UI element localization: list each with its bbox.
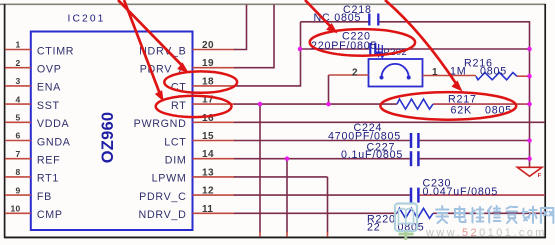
pin 5 VDDA wire	[5, 113, 70, 131]
svg-text:7: 7	[15, 149, 20, 159]
pin 7 REF wire	[5, 149, 60, 167]
annotation ellipse around R217	[380, 92, 516, 120]
pin 15 LCT wire	[164, 131, 529, 148]
watermark char 3	[470, 207, 483, 223]
svg-text:12: 12	[202, 186, 214, 197]
pin 9 FB wire	[5, 185, 52, 203]
pin 6 GNDA wire	[5, 131, 71, 149]
node junction bus LCT	[527, 138, 532, 143]
pin 4 SST wire	[5, 94, 60, 112]
pin 11 NDRV_D wire	[139, 204, 545, 221]
frame top line	[0, 3, 546, 5]
svg-text:VDDA: VDDA	[37, 118, 70, 130]
wire C220 net	[301, 48, 530, 50]
svg-text:CMP: CMP	[37, 209, 63, 221]
svg-text:18: 18	[202, 76, 214, 87]
frame right line	[544, 4, 546, 238]
svg-text:1: 1	[15, 40, 20, 50]
watermark char 5	[507, 207, 517, 224]
svg-text:OVP: OVP	[37, 64, 62, 76]
svg-text:0.047uF/0805: 0.047uF/0805	[423, 186, 499, 198]
capacitor C218	[314, 4, 379, 26]
svg-text:IC201: IC201	[68, 13, 106, 24]
svg-text:16: 16	[202, 113, 214, 124]
svg-text:PDRV_C: PDRV_C	[139, 191, 186, 203]
svg-text:5: 5	[15, 113, 20, 123]
svg-text:www.520101.com: www.520101.com	[425, 227, 547, 239]
capacitor C227	[341, 141, 418, 166]
annotation ellipse around CT pin	[164, 71, 237, 92]
svg-text:22: 22	[367, 221, 381, 233]
pin 14 DIM wire	[165, 149, 530, 166]
watermark char 2	[455, 207, 466, 223]
resistor R216	[450, 57, 530, 80]
annotation arrow to R217	[385, 0, 462, 91]
annotation arrow to CT	[118, 0, 188, 72]
pin 10 CMP wire	[5, 204, 63, 222]
svg-text:CTIMR: CTIMR	[37, 45, 74, 57]
frame bottom line	[4, 236, 546, 238]
svg-text:6: 6	[15, 131, 20, 141]
pin 19 PDRV_A wire	[140, 5, 274, 76]
svg-text:RT1: RT1	[37, 173, 59, 185]
pin 1 CTIMR wire	[5, 40, 74, 58]
svg-text:SST: SST	[37, 100, 60, 112]
node junction C220/CT	[298, 47, 303, 52]
svg-text:OZ960: OZ960	[99, 112, 117, 163]
svg-text:NDRV_D: NDRV_D	[139, 209, 187, 221]
svg-text:1M: 1M	[450, 66, 466, 78]
svg-text:LCT: LCT	[164, 136, 186, 148]
pin 8 RT1 wire	[5, 167, 59, 185]
svg-text:NC 0805: NC 0805	[314, 12, 362, 24]
ground PGND	[517, 167, 542, 179]
node junction bus DIM	[527, 156, 532, 161]
svg-text:20: 20	[202, 40, 214, 51]
svg-text:11: 11	[202, 204, 213, 215]
svg-text:ENA: ENA	[37, 82, 61, 94]
pin 17 RT wire	[171, 95, 529, 112]
node junction bus C220	[527, 47, 532, 52]
jumper P202	[329, 47, 477, 86]
op-amp U1 : IC201 OZ960 controller body	[31, 32, 193, 231]
pin 2 of P202	[329, 74, 369, 76]
resistor R217	[397, 94, 512, 117]
wire C218 net	[301, 21, 530, 23]
wire P202 pin2 drop to RT net	[328, 75, 330, 104]
svg-text:62K: 62K	[451, 104, 472, 116]
svg-text:0.1uF/0805: 0.1uF/0805	[341, 149, 403, 161]
svg-text:LPWM: LPWM	[152, 173, 187, 185]
annotation arrow to RT	[124, 0, 163, 101]
watermark char 7	[541, 208, 554, 223]
pin 18 CT wire	[171, 22, 301, 94]
node junction RT left	[258, 102, 263, 107]
capacitor C220	[311, 30, 385, 57]
capacitor C230	[411, 177, 498, 202]
svg-text:3: 3	[15, 76, 20, 86]
svg-text:RT: RT	[171, 100, 186, 112]
annotation ellipse around RT pin	[156, 96, 232, 117]
node junction RT / P202 pin2	[326, 102, 331, 107]
svg-text:19: 19	[202, 58, 214, 69]
node junction bus R216	[527, 74, 532, 79]
pin 20 NDRV_B wire	[139, 5, 246, 58]
pin 3 ENA wire	[5, 76, 61, 94]
svg-text:F: F	[538, 173, 542, 179]
svg-text:1: 1	[432, 67, 438, 78]
svg-text:9: 9	[15, 185, 20, 195]
svg-text:13: 13	[202, 167, 214, 178]
svg-text:PWRGND: PWRGND	[134, 118, 187, 130]
pin 13 LPWM wire	[152, 167, 328, 236]
frame left line	[4, 4, 6, 238]
svg-text:GNDA: GNDA	[37, 136, 71, 148]
pin 16 PWRGND wire	[134, 113, 545, 130]
svg-text:10: 10	[10, 204, 20, 214]
svg-text:0805: 0805	[480, 66, 507, 78]
svg-text:2: 2	[15, 58, 20, 68]
svg-text:15: 15	[202, 131, 214, 142]
capacitor C224	[328, 122, 418, 148]
wire vertical from RT junction down	[259, 104, 261, 232]
resistor R220	[367, 208, 433, 233]
svg-text:8: 8	[15, 167, 20, 177]
node junction DIM drop	[285, 156, 290, 161]
node junction bus RT	[527, 102, 532, 107]
watermark char 1	[436, 206, 449, 223]
svg-text:4: 4	[15, 94, 20, 104]
svg-text:FB: FB	[37, 191, 52, 203]
watermark char 4	[488, 206, 501, 223]
watermark char 6	[523, 207, 537, 224]
wire ground bus vertical right	[529, 21, 531, 167]
svg-text:2: 2	[352, 67, 358, 78]
watermark logo book	[395, 204, 417, 241]
svg-text:REF: REF	[37, 155, 60, 167]
annotation ellipse around C220	[310, 29, 415, 56]
pin 1 of P202	[423, 75, 477, 77]
svg-text:14: 14	[202, 149, 214, 160]
annotation arrow to C220	[305, 0, 337, 33]
svg-text:DIM: DIM	[165, 155, 187, 167]
pin 12 PDRV_C wire	[139, 186, 545, 203]
pin 2 OVP wire	[5, 58, 62, 76]
wire vertical from DIM junction down	[286, 159, 288, 233]
